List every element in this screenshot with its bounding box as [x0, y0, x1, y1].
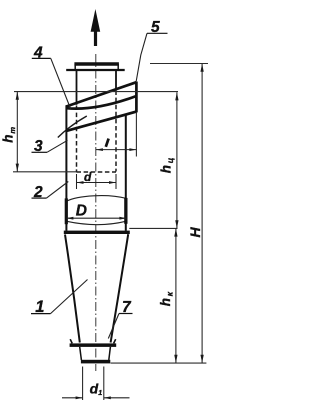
label h_k — [158, 291, 175, 306]
inner tube bottom hidden dashed — [77, 171, 117, 173]
extension line for l at inlet edge — [135, 112, 137, 156]
extension line joint level — [129, 227, 177, 229]
svg-text:d: d — [84, 170, 92, 184]
inlet opening right edge — [135, 82, 138, 113]
wall section cut left — [65, 198, 68, 224]
dust outlet flange right wing — [114, 339, 116, 343]
dimension h_c line (cylinder height) — [175, 92, 178, 228]
scroll inlet middle edge — [66, 96, 136, 109]
dimension l line — [96, 148, 136, 151]
label h_c — [158, 157, 175, 173]
centerline axis — [95, 54, 97, 371]
svg-text:к: к — [164, 291, 174, 296]
svg-text:т: т — [8, 127, 17, 134]
inner tube right wall hidden dashed — [115, 91, 117, 172]
pipe right wall solid — [115, 71, 117, 90]
dust outlet flange left wing — [70, 339, 72, 343]
part label 7 — [108, 299, 132, 338]
dust outlet flange bar — [70, 343, 117, 347]
cylinder left wall — [65, 105, 67, 230]
dust outlet tube left wall — [80, 347, 82, 360]
part label 1 — [31, 280, 88, 317]
pipe left wall solid — [76, 71, 78, 105]
dimension h_k line (cone height) — [174, 228, 177, 363]
break wave lower — [66, 221, 126, 224]
svg-text:1: 1 — [98, 390, 102, 397]
extension line tube bottom level — [13, 171, 77, 173]
extension line bottom level — [111, 362, 207, 364]
label H — [187, 227, 203, 238]
label d1 — [90, 380, 103, 397]
cone left edge — [65, 235, 80, 343]
joint flange plate — [64, 231, 130, 234]
label l — [106, 139, 109, 147]
svg-text:D: D — [76, 203, 87, 220]
svg-text:H: H — [187, 227, 203, 238]
cone right edge — [111, 234, 129, 342]
exhaust pipe top opening — [74, 62, 119, 65]
part label 4 — [32, 44, 71, 109]
dust outlet bottom rim — [81, 360, 110, 364]
svg-text:h: h — [158, 165, 173, 173]
dust outlet tube right wall — [109, 347, 111, 360]
gas outlet flow arrow — [91, 9, 101, 46]
extension line top (pipe top level, for H) — [150, 63, 208, 65]
scroll inlet bottom edge — [66, 112, 136, 131]
dimension H line (total height) — [200, 64, 203, 363]
part label 3 — [32, 138, 68, 155]
scroll inlet top edge — [66, 82, 136, 106]
svg-text:ц: ц — [165, 157, 175, 163]
inner tube left wall hidden dashed — [76, 106, 78, 172]
part label 5 — [136, 19, 167, 82]
pipe flange plate — [66, 69, 125, 71]
pipe neck sides — [74, 64, 76, 70]
cylinder right wall — [125, 114, 127, 230]
svg-text:h: h — [0, 135, 15, 143]
dimension d line — [77, 174, 117, 189]
svg-text:d: d — [90, 380, 99, 396]
wall section cut right — [124, 198, 127, 224]
dimension D line — [66, 217, 126, 220]
break wave upper — [66, 196, 126, 202]
svg-text:h: h — [158, 298, 173, 306]
extension line cylinder top level — [14, 91, 178, 93]
part label 2 — [32, 182, 69, 201]
scroll wrap lower-left edge — [58, 116, 87, 138]
dimension h_t line — [16, 92, 19, 172]
label h_t — [0, 127, 17, 143]
dimension d1 (dust outlet) — [62, 367, 130, 401]
